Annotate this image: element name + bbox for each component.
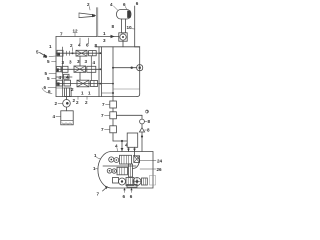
- row C labels: [59, 75, 70, 80]
- svg-text:7: 7: [101, 127, 104, 132]
- svg-text:2: 2: [71, 87, 74, 92]
- valve row C rail: [56, 83, 113, 85]
- bottom plate: [127, 184, 137, 187]
- bus lines: [99, 47, 102, 97]
- wire drain: [56, 87, 65, 89]
- label v3: [101, 127, 110, 132]
- orifice ticks row A: [67, 51, 74, 55]
- wire B-C stub: [79, 72, 81, 80]
- svg-text:8: 8: [148, 119, 151, 124]
- svg-text:10: 10: [127, 25, 133, 30]
- svg-text:1: 1: [81, 91, 84, 96]
- svg-text:2: 2: [55, 101, 58, 106]
- svg-text:4: 4: [115, 144, 118, 149]
- primary clutch pack: [120, 155, 132, 164]
- left column labels: [42, 44, 56, 94]
- side cover box: [113, 178, 119, 184]
- output gear: [119, 178, 126, 185]
- final hatched block: [142, 178, 148, 185]
- lever input shaft: [79, 8, 98, 37]
- wire chain bottom: [113, 133, 127, 152]
- svg-text:4: 4: [78, 42, 81, 47]
- svg-text:4: 4: [66, 75, 69, 80]
- transaxle case: [98, 152, 153, 189]
- label 4: [110, 2, 118, 10]
- case bottom labels: [123, 188, 133, 199]
- orifice on supply line: [113, 65, 143, 71]
- wire return rail: [113, 88, 140, 90]
- svg-text:3: 3: [69, 60, 72, 65]
- pump labels: [55, 98, 76, 106]
- label 8: [112, 24, 115, 29]
- svg-text:2: 2: [85, 100, 88, 105]
- svg-text:7: 7: [101, 113, 104, 118]
- svg-text:1: 1: [88, 91, 91, 96]
- case top labels: [115, 143, 128, 152]
- svg-text:6: 6: [44, 85, 47, 90]
- svg-text:26: 26: [157, 167, 163, 172]
- primary gear pair: [109, 157, 119, 163]
- row A labels: [70, 42, 98, 48]
- svg-text:6: 6: [130, 194, 133, 199]
- accumulator D: [65, 88, 72, 97]
- arrow into case: [97, 186, 108, 196]
- valve body 12 outline: [56, 37, 137, 97]
- chain: valve V3: [110, 119, 117, 133]
- label 10: [127, 25, 135, 30]
- svg-text:5: 5: [47, 76, 50, 81]
- svg-text:1: 1: [94, 153, 97, 158]
- svg-text:2: 2: [87, 2, 90, 7]
- svg-text:5: 5: [47, 59, 50, 64]
- case left labels: [93, 153, 101, 171]
- svg-text:24: 24: [157, 159, 163, 164]
- valve C2: [77, 80, 89, 87]
- wire pump feed: [98, 35, 119, 38]
- row B labels: [62, 59, 96, 65]
- secondary gear pair: [107, 169, 116, 174]
- svg-text:7: 7: [102, 102, 105, 107]
- valve C3: [91, 81, 98, 87]
- svg-text:4: 4: [59, 75, 62, 80]
- svg-text:4: 4: [110, 2, 113, 7]
- solenoid A1: [57, 50, 63, 56]
- orifice right: [140, 119, 145, 127]
- reservoir 4: [117, 10, 132, 33]
- bottom strip labels: [71, 87, 91, 96]
- solenoid C1: [57, 80, 71, 86]
- label v2: [101, 113, 110, 118]
- row A leader ticks: [73, 38, 89, 52]
- svg-text:7: 7: [60, 32, 63, 37]
- svg-text:1: 1: [49, 44, 52, 49]
- label 15: [103, 38, 106, 43]
- chain: valve V2: [110, 108, 117, 119]
- svg-text:4: 4: [125, 143, 128, 148]
- left bus: [62, 47, 64, 97]
- wire A-B stub: [79, 56, 81, 66]
- supply line 6: [135, 6, 140, 97]
- svg-text:3: 3: [85, 59, 88, 64]
- label 2: [87, 2, 90, 10]
- valve A3: [89, 51, 97, 56]
- bottom edge labels: [76, 97, 88, 106]
- svg-text:8: 8: [147, 128, 150, 133]
- svg-text:7: 7: [97, 192, 100, 197]
- valve row A rail: [56, 52, 99, 54]
- wire A-B stub 2: [90, 56, 92, 67]
- right chain labels: [144, 110, 150, 133]
- belt hook: [133, 156, 140, 169]
- node J1: [112, 67, 114, 69]
- chain: valve V1: [110, 97, 117, 109]
- label v1: [102, 102, 110, 107]
- right leaders: [140, 159, 163, 172]
- diff clutch: [126, 178, 134, 186]
- strainer: [61, 111, 73, 125]
- valve A2: [76, 50, 87, 56]
- svg-text:4: 4: [93, 60, 96, 65]
- svg-text:6: 6: [136, 1, 139, 6]
- svg-text:8: 8: [95, 43, 98, 48]
- mount bracket: [150, 176, 156, 186]
- wire B-C stub 2: [90, 72, 92, 80]
- wire stub: [102, 92, 114, 94]
- node dots on bus: [99, 52, 101, 84]
- svg-text:12: 12: [73, 29, 79, 34]
- secondary clutch pack: [117, 167, 128, 175]
- svg-text:8: 8: [112, 24, 115, 29]
- svg-text:2: 2: [73, 98, 76, 103]
- accumulator box: [127, 133, 138, 156]
- svg-text:5: 5: [36, 50, 39, 55]
- strainer label: [53, 114, 61, 119]
- arrow 50: [36, 50, 48, 58]
- label 6: [136, 1, 139, 6]
- svg-text:6: 6: [123, 194, 126, 199]
- solenoid B1: [56, 66, 68, 72]
- drain line B: [56, 74, 72, 79]
- svg-text:3: 3: [77, 59, 80, 64]
- pulley strip: [129, 164, 133, 177]
- label 12: [73, 29, 79, 37]
- svg-text:6: 6: [123, 2, 126, 7]
- svg-text:1: 1: [103, 31, 106, 36]
- check valve: [139, 128, 144, 152]
- svg-text:4: 4: [53, 114, 56, 119]
- wire branch right: [116, 115, 142, 119]
- shaft: [103, 165, 136, 167]
- svg-text:2: 2: [76, 100, 79, 105]
- valve row B rail: [56, 68, 99, 70]
- oil pump 8: [119, 33, 127, 47]
- valve B3: [87, 66, 96, 72]
- label 13: [103, 31, 106, 36]
- svg-text:3: 3: [103, 38, 106, 43]
- oil pump 28: [63, 97, 71, 111]
- svg-text:3: 3: [62, 60, 65, 65]
- label 6: [123, 2, 127, 9]
- differential: [133, 178, 141, 186]
- valve B2: [74, 66, 86, 72]
- pressure rail: [95, 46, 140, 48]
